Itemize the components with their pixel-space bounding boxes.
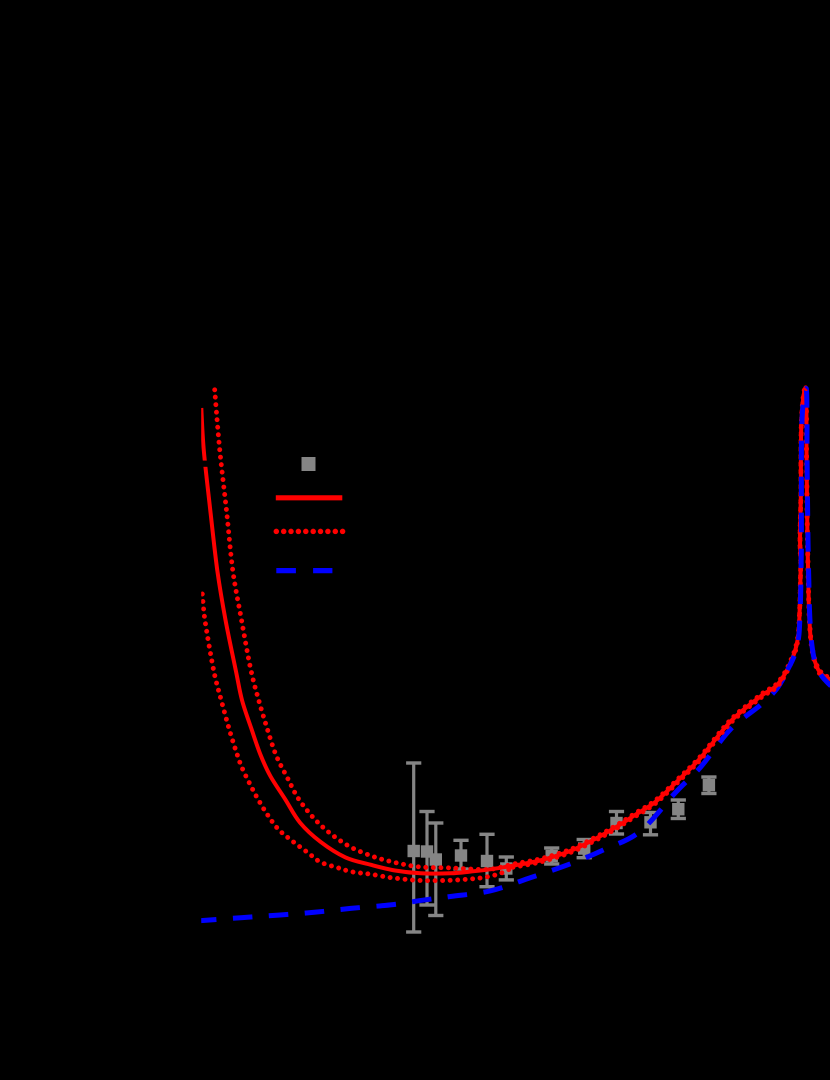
data point marker x=427	[421, 845, 433, 857]
data point marker x=678	[672, 803, 684, 815]
data point marker x=461	[455, 849, 467, 861]
red solid curve (model A central)	[201, 387, 830, 873]
data point error bar x=678	[671, 800, 686, 819]
legend line: red dotted	[274, 529, 280, 535]
legend line: blue dashed	[276, 568, 296, 573]
blue dashed overlay on resonance spike	[788, 388, 830, 686]
data point error bar x=436	[428, 823, 443, 916]
data point marker x=506	[500, 862, 512, 874]
data point error bar x=506	[499, 857, 514, 880]
data point marker x=650	[644, 816, 656, 828]
data point error bar x=487	[479, 834, 494, 886]
data point error bar x=650	[643, 813, 658, 835]
data point error bar x=414	[406, 763, 421, 932]
data point error bar x=616	[609, 812, 624, 835]
red dotted lower band curve	[202, 389, 830, 881]
text-occlusion gap on solid curve	[198, 461, 210, 467]
data point error bar x=709	[701, 777, 716, 794]
data point error bar x=461	[453, 840, 468, 869]
data point marker x=616	[610, 817, 622, 829]
data point error bar x=552	[544, 848, 559, 864]
data point marker x=487	[481, 855, 493, 867]
data point marker x=709	[703, 779, 715, 791]
blue dashed curve (model B)	[201, 670, 788, 921]
red dotted upper band curve	[215, 386, 830, 870]
data point error bar x=584	[577, 840, 592, 858]
data point marker x=584	[578, 842, 590, 854]
data point error bar x=427	[419, 812, 434, 906]
data point marker x=436	[430, 853, 442, 865]
legend marker: gray square	[302, 457, 316, 471]
data point marker x=414	[408, 845, 420, 857]
legend line: red solid	[276, 495, 343, 500]
data point marker x=552	[546, 850, 558, 862]
